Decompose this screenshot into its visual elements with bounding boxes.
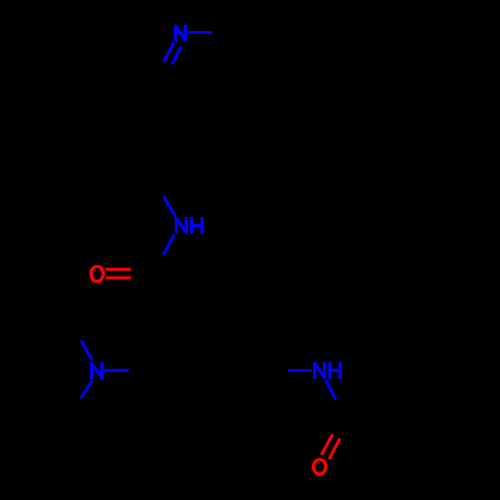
wire: double bond N1=C6 pyridine, inner line N half xyxy=(172,46,181,64)
wire: bond N-C(aryl), N half xyxy=(104,369,129,372)
wire: bond NH-CH2, N half xyxy=(163,197,175,217)
wire: bond N-CH3 upper, N half xyxy=(81,341,92,360)
pyridine N1 label xyxy=(176,25,186,41)
acetyl O label xyxy=(314,459,326,474)
carbonyl O label xyxy=(91,266,103,281)
wire: bond NH-C(=O) acetyl, N half xyxy=(326,380,336,400)
amide NH label xyxy=(177,217,203,234)
wire: bond N1-C2 pyridine, N half xyxy=(188,31,212,34)
wire: acetyl double bond C=O main line, O half xyxy=(321,434,332,455)
anilide NH label xyxy=(315,362,341,379)
wire: bond NH-C(=O), N half xyxy=(163,234,174,254)
wire: double bond C=O bottom line, O half xyxy=(106,276,131,279)
wire: double bond C=O top line, O half xyxy=(106,268,131,271)
wire: bond N-CH3 lower, N half xyxy=(81,381,92,398)
dimethylamino N label xyxy=(92,362,102,379)
wire: bond C(aryl)-NH, N half xyxy=(288,369,312,372)
wire: acetyl double bond C=O inner line, O half xyxy=(329,438,340,459)
wire: double bond N1=C6 pyridine, main line N half xyxy=(164,43,175,63)
